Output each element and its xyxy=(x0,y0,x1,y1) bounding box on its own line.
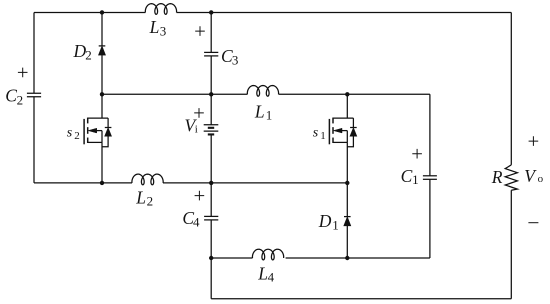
plus sign C2 xyxy=(18,68,28,78)
node bottom-left bus s2 xyxy=(100,181,104,185)
capacitor C1 xyxy=(423,175,437,177)
svg-text:1: 1 xyxy=(320,130,326,142)
svg-text:4: 4 xyxy=(193,214,200,229)
wire C4 branch xyxy=(210,183,212,299)
svg-text:V: V xyxy=(524,166,537,186)
node D1-L4 junction xyxy=(345,256,349,260)
wire bottom-left bus xyxy=(34,182,347,184)
wire D2 branch xyxy=(101,12,103,94)
capacitor C2 xyxy=(27,92,41,94)
inductor L3 xyxy=(145,4,176,15)
svg-text:1: 1 xyxy=(412,172,419,187)
inductor L2 xyxy=(132,174,163,185)
wire L4 bus xyxy=(211,257,430,259)
wire left vertical C2 leg xyxy=(33,12,35,182)
wire bottom bus xyxy=(211,298,511,300)
inductor L4 xyxy=(252,249,283,260)
node middle bus Vi xyxy=(209,92,213,96)
node L4 junction xyxy=(209,256,213,260)
inductor L1 xyxy=(247,86,278,97)
node bottom bus C4 xyxy=(209,181,213,185)
svg-text:2: 2 xyxy=(147,194,154,209)
wire C1 branch xyxy=(429,94,431,258)
plus sign C4 xyxy=(195,191,205,201)
svg-text:L: L xyxy=(257,264,268,284)
plus sign C3 xyxy=(195,26,205,36)
capacitor C3 xyxy=(204,51,218,53)
svg-text:L: L xyxy=(254,102,265,122)
svg-text:L: L xyxy=(149,17,160,37)
svg-text:C: C xyxy=(5,86,17,106)
svg-text:2: 2 xyxy=(74,130,80,142)
svg-text:3: 3 xyxy=(160,24,167,39)
voltage source Vi battery xyxy=(204,125,219,131)
transistor s2 drain lead xyxy=(101,94,103,118)
transistor s2 xyxy=(88,117,108,119)
svg-text:D: D xyxy=(318,211,332,231)
wire D1 branch xyxy=(346,183,348,258)
svg-text:2: 2 xyxy=(17,92,24,107)
wire right vertical xyxy=(510,12,512,298)
transistor s1 source lead xyxy=(346,142,348,183)
svg-text:R: R xyxy=(491,167,503,187)
transistor s1 drain lead xyxy=(346,94,348,118)
node middle bus left xyxy=(100,92,104,96)
svg-text:C: C xyxy=(401,166,413,186)
diode D1 xyxy=(344,216,351,218)
resistor R xyxy=(505,165,517,190)
wire C3 branch xyxy=(210,12,212,94)
plus sign Vo xyxy=(529,136,539,146)
minus sign Vo xyxy=(528,222,538,224)
wire middle bus xyxy=(102,93,430,95)
wire top bus xyxy=(34,11,511,13)
node middle bus s1 xyxy=(345,92,349,96)
node top C3 junction xyxy=(209,10,213,14)
plus sign Vi xyxy=(194,108,204,118)
capacitor C4 xyxy=(204,215,218,217)
svg-text:s: s xyxy=(313,125,319,140)
svg-text:s: s xyxy=(67,125,73,140)
plus sign C1 xyxy=(412,149,422,159)
svg-text:o: o xyxy=(538,173,544,185)
svg-text:i: i xyxy=(195,124,198,136)
transistor s2 source lead xyxy=(101,142,103,183)
voltage source Vi wires xyxy=(210,94,212,183)
svg-text:4: 4 xyxy=(268,270,275,285)
diode D2 xyxy=(99,45,106,47)
svg-text:3: 3 xyxy=(232,52,239,67)
svg-text:2: 2 xyxy=(85,48,92,63)
node top-left junction xyxy=(100,10,104,14)
node bottom bus s1-D1 xyxy=(345,181,349,185)
svg-text:1: 1 xyxy=(266,108,273,123)
svg-text:L: L xyxy=(135,187,146,207)
transistor s1 xyxy=(333,117,353,119)
svg-text:1: 1 xyxy=(332,217,339,232)
